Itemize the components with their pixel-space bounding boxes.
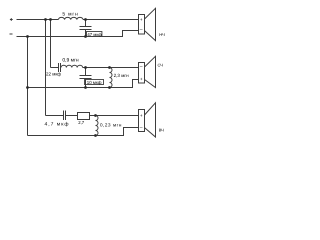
svg-text:–: – <box>140 27 143 33</box>
svg-text:10 мкф: 10 мкф <box>87 80 102 85</box>
svg-text:2,7: 2,7 <box>78 120 85 125</box>
svg-text:47 мкф: 47 мкф <box>87 32 102 37</box>
svg-text:0,23 мгн: 0,23 мгн <box>100 122 122 127</box>
svg-text:НЧ: НЧ <box>159 32 165 37</box>
svg-text:0,9 мгн: 0,9 мгн <box>62 58 79 64</box>
svg-text:СЧ: СЧ <box>158 63 164 68</box>
svg-text:+: + <box>140 17 143 22</box>
svg-text:–: – <box>140 125 143 131</box>
svg-text:4,7 мкф: 4,7 мкф <box>44 122 69 128</box>
svg-text:ВЧ: ВЧ <box>159 127 164 132</box>
svg-text:–: – <box>140 64 143 70</box>
svg-text:2,3 мгн: 2,3 мгн <box>114 73 129 78</box>
svg-text:+: + <box>140 113 143 118</box>
svg-text:5 мгн: 5 мгн <box>62 11 78 17</box>
svg-text:22 мкф: 22 мкф <box>46 71 61 76</box>
svg-text:+: + <box>140 77 143 82</box>
